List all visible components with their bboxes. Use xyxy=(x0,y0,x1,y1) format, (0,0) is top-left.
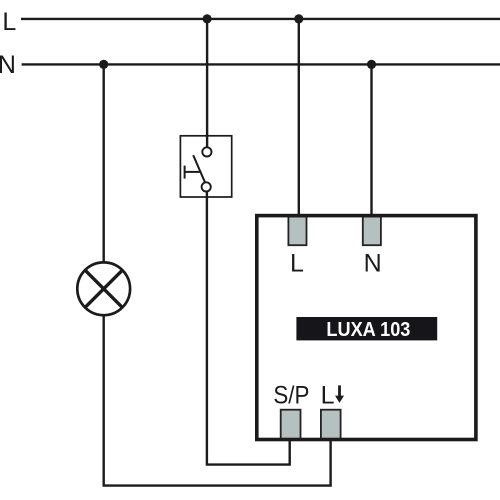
svg-text:N: N xyxy=(0,51,16,79)
svg-text:L: L xyxy=(290,249,304,277)
svg-text:L: L xyxy=(2,8,16,36)
svg-text:L: L xyxy=(321,382,335,410)
svg-text:N: N xyxy=(364,249,382,277)
svg-text:S/P: S/P xyxy=(273,382,309,410)
svg-text:LUXA 103: LUXA 103 xyxy=(326,319,410,341)
